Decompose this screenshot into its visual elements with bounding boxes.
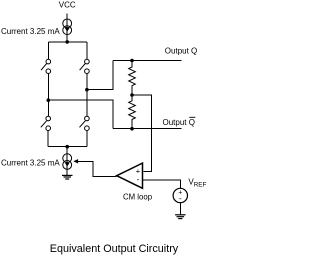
svg-text:-: -	[179, 194, 182, 203]
svg-text:Current 3.25 mA: Current 3.25 mA	[1, 27, 60, 36]
svg-text:Output Q: Output Q	[165, 46, 197, 55]
svg-text:Output Q: Output Q	[163, 118, 195, 127]
svg-text:CM loop: CM loop	[123, 192, 153, 201]
svg-text:VCC: VCC	[59, 1, 76, 10]
svg-text:Current 3.25 mA: Current 3.25 mA	[1, 158, 60, 167]
svg-text:-: -	[137, 175, 140, 184]
svg-text:Equivalent Output Circuitry: Equivalent Output Circuitry	[50, 243, 179, 255]
